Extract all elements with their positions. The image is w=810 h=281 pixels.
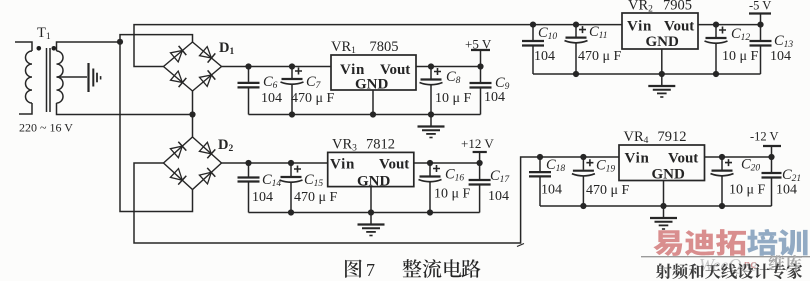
wire center tap	[57, 76, 88, 78]
svg-text:C15: C15	[304, 172, 323, 189]
watermark ghost text	[699, 255, 802, 275]
ground VR4	[663, 206, 665, 218]
svg-text:Vout: Vout	[664, 19, 694, 35]
svg-text:C11: C11	[589, 24, 607, 41]
wire VR1 output	[416, 66, 481, 68]
svg-text:C6: C6	[263, 74, 278, 91]
wire VR3 output	[414, 162, 480, 164]
svg-text:T1: T1	[37, 25, 51, 42]
node C16 top	[427, 160, 433, 166]
svg-text:220 ~ 16 V: 220 ~ 16 V	[19, 121, 73, 135]
node C20 bottom	[719, 203, 725, 209]
wire secondary bottom lead	[57, 103, 193, 115]
capacitor C19	[572, 157, 630, 206]
wire VR1 ground rail	[249, 114, 481, 116]
wire AC2 D1 bottom to D2 top	[192, 91, 194, 137]
diode D1 left-top	[171, 51, 183, 62]
wire VR3 ground rail	[249, 212, 480, 214]
svg-text:104: 104	[770, 49, 791, 64]
svg-text:104: 104	[488, 189, 509, 204]
svg-text:VR4: VR4	[624, 129, 649, 146]
-5V terminal	[749, 0, 771, 25]
svg-text:104: 104	[484, 90, 505, 105]
node C8 top	[428, 63, 434, 69]
watermark divider line	[641, 256, 810, 258]
node C10 top	[530, 22, 536, 28]
svg-text:Vin: Vin	[330, 156, 355, 172]
node VR4 GND	[660, 203, 666, 209]
diode D2 left-top	[170, 146, 182, 158]
svg-text:104: 104	[261, 91, 282, 106]
wire AC1 to D1 top	[120, 35, 193, 42]
regulator VR2 7905	[622, 0, 698, 50]
node C19 top	[580, 154, 586, 160]
wire VR3 GND pin	[370, 187, 372, 213]
svg-text:10 μ F: 10 μ F	[722, 49, 759, 64]
wire VR1 GND pin	[372, 90, 374, 115]
capacitor C8	[420, 67, 472, 115]
svg-text:GND: GND	[357, 174, 391, 190]
node C18 top	[537, 154, 543, 160]
svg-text:470 μ F: 470 μ F	[294, 190, 338, 205]
capacitor C13	[750, 25, 794, 74]
svg-text:7: 7	[366, 260, 375, 280]
svg-text:7805: 7805	[370, 39, 399, 55]
svg-text:C21: C21	[782, 167, 801, 184]
svg-text:104: 104	[252, 190, 273, 205]
svg-text:GND: GND	[355, 77, 389, 93]
wire VR2 GND pin	[661, 49, 663, 74]
wire VR4 ground rail	[540, 205, 772, 207]
capacitor C20	[711, 157, 766, 207]
wire VR2 ground rail	[533, 73, 761, 75]
node C15 bottom	[288, 209, 294, 215]
op-amp-style regulator VR1 7805	[331, 39, 416, 93]
svg-text:470 μ F: 470 μ F	[578, 49, 622, 64]
wire VR2 output	[698, 24, 761, 26]
svg-text:7912: 7912	[658, 129, 687, 145]
capacitor C10	[522, 25, 557, 74]
svg-text:470 μ F: 470 μ F	[291, 91, 335, 106]
diode D2 bottom-right	[199, 172, 211, 184]
+12V terminal	[461, 136, 494, 163]
wire D1 positive to VR1 input	[222, 66, 332, 68]
bridge rectifier D2	[164, 137, 222, 190]
diode D1 bottom-right	[200, 75, 212, 86]
svg-text:C14: C14	[262, 172, 281, 189]
svg-text:D2: D2	[218, 137, 233, 154]
transformer T1	[15, 25, 63, 114]
node C12 top	[713, 22, 719, 28]
regulator VR4 7912	[619, 129, 705, 183]
ground VR3	[370, 213, 372, 225]
regulator VR3 7812	[328, 137, 414, 190]
node C6 top	[245, 63, 251, 69]
capacitor C15	[280, 163, 338, 213]
svg-text:Vin: Vin	[625, 151, 650, 167]
svg-text:7812: 7812	[366, 137, 395, 153]
watermark logo 易迪拓培训	[653, 229, 807, 256]
capacitor C18	[529, 157, 565, 206]
svg-text:10 μ F: 10 μ F	[435, 91, 472, 106]
node -12V junction	[768, 154, 774, 160]
svg-text:+12 V: +12 V	[461, 136, 494, 151]
node C8 bottom	[428, 111, 434, 117]
caption 图7 整流电路	[345, 259, 480, 280]
+5V terminal	[465, 37, 492, 67]
svg-text:Vin: Vin	[627, 19, 652, 35]
capacitor C12	[705, 25, 759, 74]
-12V terminal	[750, 130, 781, 158]
wire D2 positive to VR3 input	[222, 162, 328, 164]
capacitor C16	[419, 163, 471, 213]
node AC1 junction	[117, 39, 123, 45]
diode D1 top-right	[200, 47, 212, 58]
node AC2 junction	[189, 111, 195, 117]
node C7 top	[289, 63, 295, 69]
corner tick	[517, 244, 524, 247]
svg-text:C12: C12	[731, 26, 750, 43]
node C15 top	[288, 160, 294, 166]
node C19 bottom	[580, 203, 586, 209]
svg-text:VR2: VR2	[628, 0, 653, 15]
node VR2 GND	[659, 71, 665, 77]
wire secondary top lead	[57, 42, 121, 51]
svg-text:GND: GND	[646, 34, 680, 50]
capacitor C6	[238, 67, 283, 115]
svg-text:C8: C8	[446, 69, 461, 86]
node C12 bottom	[713, 71, 719, 77]
node C11 top	[573, 22, 579, 28]
svg-text:470 μ F: 470 μ F	[586, 183, 630, 198]
svg-text:Vout: Vout	[379, 156, 409, 172]
ground VR1	[430, 115, 432, 127]
svg-text:104: 104	[541, 183, 562, 198]
wire AC1 down to D2 bottom	[120, 42, 193, 212]
node -5V junction	[757, 22, 763, 28]
capacitor C11	[565, 24, 622, 74]
svg-text:7905: 7905	[663, 0, 692, 14]
svg-text:104: 104	[776, 183, 797, 198]
node +12V junction	[477, 160, 483, 166]
svg-text:C16: C16	[445, 167, 464, 184]
svg-text:C18: C18	[546, 157, 565, 174]
svg-text:C19: C19	[596, 158, 615, 175]
ground (center tap, rotated)	[89, 63, 101, 92]
svg-text:C17: C17	[490, 168, 510, 185]
node C16 bottom	[427, 209, 433, 215]
capacitor C14	[238, 163, 282, 213]
ground VR2	[661, 74, 663, 86]
node C11 bottom	[573, 71, 579, 77]
node +5V junction	[477, 63, 483, 69]
wire VR4 GND pin	[663, 181, 665, 207]
wire VR4 output	[705, 156, 772, 158]
diode D1 left-bottom	[171, 71, 183, 82]
svg-text:GND: GND	[652, 167, 686, 183]
node C20 top	[719, 154, 725, 160]
svg-text:VR1: VR1	[331, 39, 356, 56]
svg-text:C13: C13	[774, 33, 793, 50]
svg-text:D1: D1	[219, 40, 234, 57]
svg-text:104: 104	[534, 49, 555, 64]
capacitor C21	[762, 157, 802, 206]
svg-text:-5 V: -5 V	[749, 0, 771, 13]
wire D2 negative to VR4 input	[134, 157, 619, 243]
svg-text:VR3: VR3	[332, 137, 357, 154]
node C14 top	[245, 160, 251, 166]
svg-text:-12 V: -12 V	[750, 130, 779, 144]
wire D1 negative to top rail	[134, 25, 622, 67]
node C7 bottom	[289, 111, 295, 117]
svg-text:C20: C20	[741, 157, 760, 174]
svg-text:10 μ F: 10 μ F	[434, 187, 471, 202]
diode D2 left-bottom	[170, 169, 182, 181]
capacitor C9	[470, 67, 510, 115]
svg-text:10 μ F: 10 μ F	[729, 183, 766, 198]
svg-text:+5 V: +5 V	[465, 37, 492, 52]
watermark subtitle 射频和天线设计专家	[656, 263, 802, 279]
svg-text:Vout: Vout	[668, 151, 698, 167]
diode D2 top-right	[199, 142, 211, 154]
capacitor C17	[469, 163, 511, 213]
capacitor C7	[281, 67, 335, 115]
node VR3 GND	[368, 209, 374, 215]
svg-text:C7: C7	[306, 74, 322, 91]
svg-text:C10: C10	[538, 25, 557, 42]
bridge rectifier D1	[164, 42, 222, 91]
node VR1 GND	[370, 111, 376, 117]
